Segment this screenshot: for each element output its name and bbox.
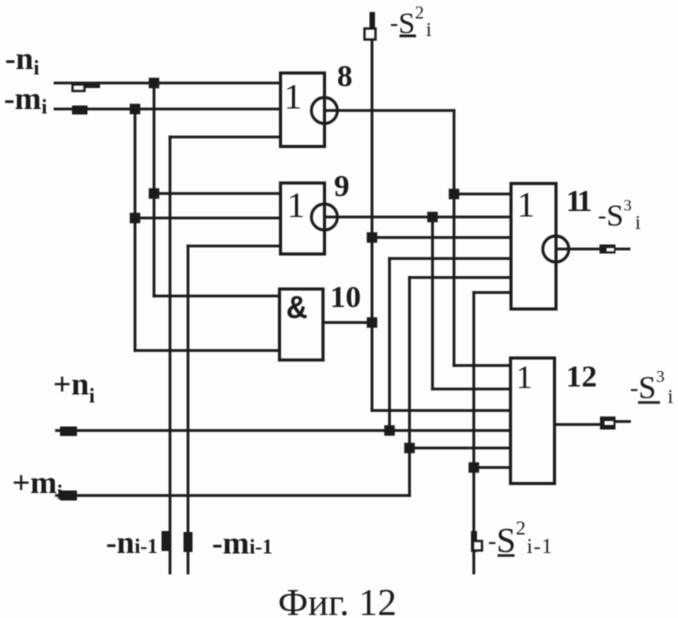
svg-text:-mi-1: -mi-1	[212, 525, 273, 561]
svg-text:Фиг. 12: Фиг. 12	[278, 582, 397, 618]
svg-text:+ni: +ni	[53, 366, 95, 408]
svg-text:-S3i: -S3i	[598, 198, 641, 235]
svg-text:1: 1	[284, 77, 302, 117]
svg-text:-S2i-1: -S2i-1	[488, 518, 553, 561]
svg-text:-mi: -mi	[4, 80, 47, 119]
svg-text:-ni-1: -ni-1	[106, 524, 158, 560]
svg-text:1: 1	[287, 185, 305, 225]
svg-text:1: 1	[517, 185, 535, 225]
svg-text:10: 10	[330, 279, 361, 314]
svg-text:12: 12	[566, 359, 597, 394]
svg-text:11: 11	[566, 183, 591, 218]
svg-text:1: 1	[516, 360, 533, 396]
svg-text:9: 9	[334, 168, 350, 203]
svg-text:&: &	[287, 291, 307, 328]
svg-text:8: 8	[337, 58, 353, 93]
svg-text:+mi: +mi	[12, 464, 63, 504]
svg-text:-ni: -ni	[5, 40, 39, 80]
